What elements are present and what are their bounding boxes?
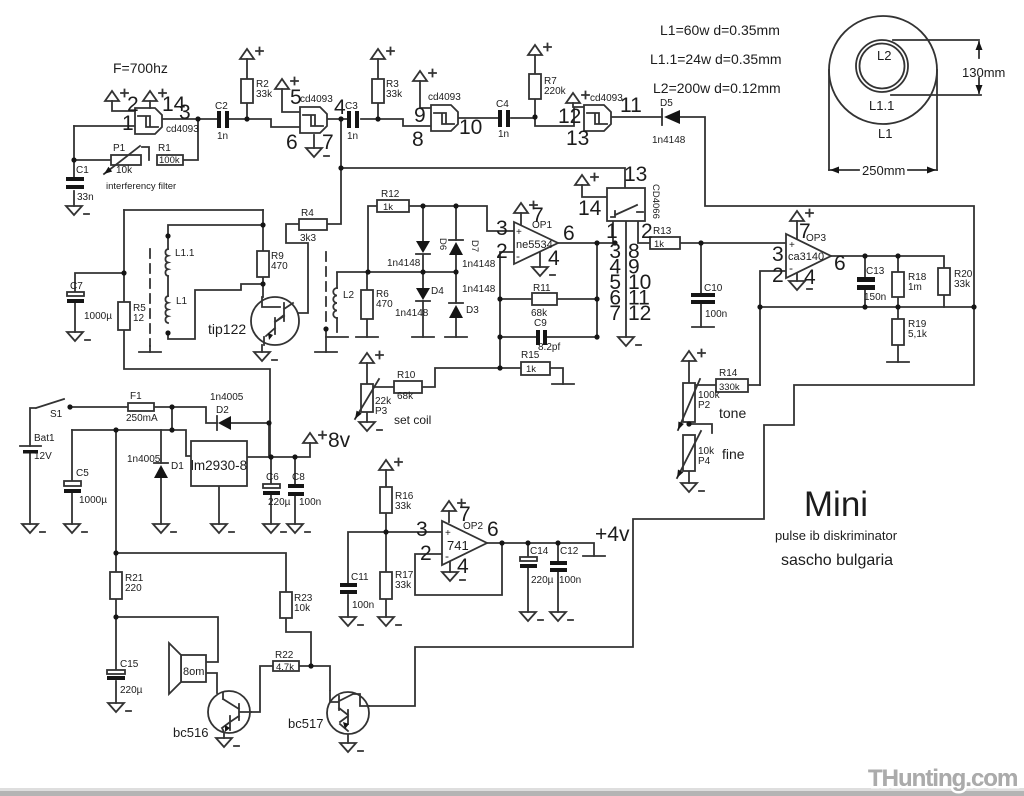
svg-text:D7: D7 (469, 240, 480, 252)
svg-text:220k: 220k (544, 86, 567, 97)
svg-text:100n: 100n (705, 309, 727, 320)
svg-text:P4: P4 (698, 456, 711, 467)
svg-text:R10: R10 (397, 370, 416, 381)
svg-text:2: 2 (772, 264, 784, 287)
svg-text:100k: 100k (159, 155, 180, 166)
svg-text:6: 6 (487, 518, 499, 541)
svg-text:fine: fine (722, 446, 745, 462)
svg-text:100n: 100n (299, 497, 321, 508)
svg-text:3: 3 (416, 518, 428, 541)
svg-text:6: 6 (286, 131, 298, 154)
svg-text:D4: D4 (431, 286, 444, 297)
svg-text:bc516: bc516 (173, 725, 208, 740)
svg-text:L2=200w d=0.12mm: L2=200w d=0.12mm (653, 80, 781, 96)
svg-text:Mini: Mini (804, 485, 868, 524)
svg-text:8v: 8v (328, 429, 351, 452)
svg-text:220: 220 (125, 583, 142, 594)
svg-text:C11: C11 (351, 572, 369, 583)
svg-text:220µ: 220µ (120, 685, 143, 696)
svg-text:4: 4 (457, 555, 469, 578)
svg-text:33n: 33n (77, 192, 94, 203)
svg-text:2: 2 (420, 542, 432, 565)
svg-text:220µ: 220µ (531, 575, 554, 586)
svg-text:R1: R1 (158, 143, 171, 154)
svg-text:R12: R12 (381, 189, 400, 200)
svg-text:C1: C1 (76, 165, 89, 176)
svg-text:8: 8 (412, 128, 424, 151)
svg-text:33k: 33k (256, 89, 273, 100)
svg-text:D3: D3 (466, 305, 479, 316)
svg-text:D6: D6 (437, 238, 448, 250)
svg-text:OP3: OP3 (806, 233, 826, 244)
svg-text:12: 12 (133, 313, 145, 324)
svg-text:C7: C7 (70, 281, 83, 292)
svg-text:C3: C3 (345, 101, 358, 112)
svg-text:2: 2 (127, 93, 139, 116)
svg-text:6: 6 (834, 252, 846, 275)
svg-text:+4v: +4v (595, 523, 630, 546)
svg-text:150n: 150n (864, 292, 886, 303)
svg-text:2: 2 (496, 240, 508, 263)
svg-text:+: + (789, 240, 795, 251)
svg-text:ca3140: ca3140 (788, 251, 824, 263)
svg-text:-: - (789, 261, 793, 275)
svg-text:OP1: OP1 (532, 220, 552, 231)
svg-text:F1: F1 (130, 391, 142, 402)
svg-text:1n: 1n (498, 129, 509, 140)
svg-text:C12: C12 (560, 546, 579, 557)
svg-text:10k: 10k (294, 603, 311, 614)
svg-text:100n: 100n (352, 600, 374, 611)
svg-text:13: 13 (566, 127, 589, 150)
svg-text:5: 5 (290, 86, 302, 109)
svg-text:D1: D1 (171, 461, 184, 472)
svg-text:1n4148: 1n4148 (462, 259, 496, 270)
svg-text:470: 470 (271, 261, 288, 272)
svg-text:12: 12 (628, 302, 651, 325)
svg-text:130mm: 130mm (962, 65, 1005, 80)
svg-text:1n: 1n (347, 131, 358, 142)
svg-text:7: 7 (609, 302, 621, 325)
svg-text:cd4093: cd4093 (166, 124, 199, 135)
svg-text:P2: P2 (698, 400, 711, 411)
svg-text:L2: L2 (343, 290, 355, 301)
svg-text:CD4066: CD4066 (650, 184, 661, 219)
svg-text:741: 741 (447, 538, 469, 553)
svg-text:L1.1: L1.1 (175, 248, 195, 259)
svg-text:68k: 68k (397, 391, 414, 402)
svg-text:C4: C4 (496, 99, 509, 110)
svg-text:1n4148: 1n4148 (387, 258, 421, 269)
svg-text:+: + (445, 528, 451, 539)
svg-text:R14: R14 (719, 368, 738, 379)
svg-text:F=700hz: F=700hz (113, 60, 168, 76)
svg-text:12: 12 (558, 105, 581, 128)
svg-text:11: 11 (620, 94, 642, 117)
svg-text:100n: 100n (559, 575, 581, 586)
svg-text:2: 2 (641, 220, 653, 243)
svg-text:L1=60w d=0.35mm: L1=60w d=0.35mm (660, 22, 780, 38)
svg-text:10k: 10k (116, 165, 133, 176)
svg-text:1n4148: 1n4148 (652, 135, 686, 146)
svg-text:L1: L1 (176, 296, 188, 307)
svg-text:tone: tone (719, 405, 746, 421)
svg-text:3k3: 3k3 (300, 233, 317, 244)
svg-text:+: + (516, 227, 522, 238)
svg-text:9: 9 (414, 104, 426, 127)
svg-text:lm2930-8: lm2930-8 (191, 458, 247, 473)
svg-text:C6: C6 (266, 472, 279, 483)
svg-text:8om: 8om (183, 666, 204, 678)
svg-text:1k: 1k (654, 239, 664, 250)
svg-text:S1: S1 (50, 409, 63, 420)
svg-text:220µ: 220µ (268, 497, 291, 508)
svg-text:R15: R15 (521, 350, 540, 361)
svg-text:1000µ: 1000µ (84, 311, 112, 322)
svg-text:C13: C13 (866, 266, 885, 277)
svg-text:L1.1: L1.1 (869, 98, 894, 113)
svg-text:cd4093: cd4093 (590, 93, 623, 104)
svg-text:L2: L2 (877, 48, 891, 63)
svg-text:cd4093: cd4093 (428, 92, 461, 103)
svg-text:D5: D5 (660, 98, 673, 109)
svg-text:L1.1=24w d=0.35mm: L1.1=24w d=0.35mm (650, 51, 782, 67)
svg-text:P1: P1 (113, 143, 126, 154)
svg-text:4.7k: 4.7k (276, 662, 294, 673)
svg-text:33k: 33k (395, 501, 412, 512)
svg-text:10: 10 (459, 116, 482, 139)
svg-text:L1: L1 (878, 126, 892, 141)
svg-text:250mA: 250mA (126, 413, 158, 424)
svg-text:1m: 1m (908, 282, 922, 293)
svg-text:C10: C10 (704, 283, 723, 294)
svg-text:1n4148: 1n4148 (462, 284, 496, 295)
svg-text:33k: 33k (386, 89, 403, 100)
svg-text:cd4093: cd4093 (300, 94, 333, 105)
svg-text:6: 6 (563, 222, 575, 245)
svg-text:R13: R13 (653, 226, 672, 237)
svg-text:1n4005: 1n4005 (127, 454, 161, 465)
svg-text:ne5534: ne5534 (516, 239, 553, 251)
svg-text:14: 14 (578, 197, 602, 220)
svg-text:R4: R4 (301, 208, 314, 219)
svg-text:330k: 330k (719, 382, 740, 393)
svg-text:THunting.com: THunting.com (868, 765, 1017, 792)
svg-text:3: 3 (496, 217, 508, 240)
svg-text:-: - (445, 549, 449, 563)
svg-text:pulse ib diskriminator: pulse ib diskriminator (775, 528, 898, 543)
svg-text:1k: 1k (526, 364, 536, 375)
svg-text:3: 3 (179, 101, 191, 124)
svg-text:33k: 33k (954, 279, 971, 290)
svg-text:-: - (516, 249, 520, 263)
svg-text:1k: 1k (383, 202, 393, 213)
svg-text:sascho bulgaria: sascho bulgaria (781, 552, 893, 569)
svg-text:3: 3 (772, 243, 784, 266)
svg-text:Bat1: Bat1 (34, 433, 55, 444)
svg-text:D2: D2 (216, 405, 229, 416)
svg-text:7: 7 (322, 131, 334, 154)
svg-text:R22: R22 (275, 650, 294, 661)
svg-text:tip122: tip122 (208, 321, 246, 337)
svg-text:C8: C8 (292, 472, 305, 483)
svg-text:C15: C15 (120, 659, 139, 670)
svg-text:OP2: OP2 (463, 521, 483, 532)
svg-text:set coil: set coil (394, 413, 431, 427)
svg-text:470: 470 (376, 299, 393, 310)
svg-text:C5: C5 (76, 468, 89, 479)
svg-text:1n: 1n (217, 131, 228, 142)
svg-text:1n4148: 1n4148 (395, 308, 429, 319)
svg-text:1000µ: 1000µ (79, 495, 107, 506)
svg-text:250mm: 250mm (862, 163, 905, 178)
svg-text:C9: C9 (534, 318, 547, 329)
svg-text:8.2pf: 8.2pf (538, 342, 560, 353)
svg-text:4: 4 (804, 266, 816, 289)
svg-text:33k: 33k (395, 580, 412, 591)
svg-text:interferency filter: interferency filter (106, 181, 176, 192)
svg-text:bc517: bc517 (288, 716, 323, 731)
svg-text:C14: C14 (530, 546, 549, 557)
svg-text:1n4005: 1n4005 (210, 392, 244, 403)
svg-text:P3: P3 (375, 406, 388, 417)
svg-text:R11: R11 (533, 283, 551, 294)
svg-text:C2: C2 (215, 101, 228, 112)
svg-text:13: 13 (624, 163, 647, 186)
svg-text:12V: 12V (34, 451, 52, 462)
svg-text:5,1k: 5,1k (908, 329, 928, 340)
